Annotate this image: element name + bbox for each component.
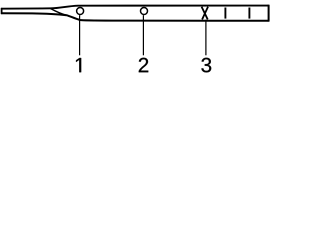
label 1 [76,58,81,72]
leader line 3 [205,20,207,56]
X mark [202,7,208,20]
leader line 1 [79,15,81,55]
label 3 [201,58,211,73]
graduation tick 2 [248,8,250,19]
taper inner edge [51,9,67,16]
label 2 [139,58,148,72]
circle mark 1 [77,8,84,15]
tube bottom outline [1,13,269,21]
tube right end cap [268,5,270,22]
graduation tick 1 [224,8,226,19]
leader line 2 [142,15,144,55]
tube top outline [1,6,269,9]
circle mark 2 [141,8,148,15]
capillary tube left end cap [1,8,3,14]
